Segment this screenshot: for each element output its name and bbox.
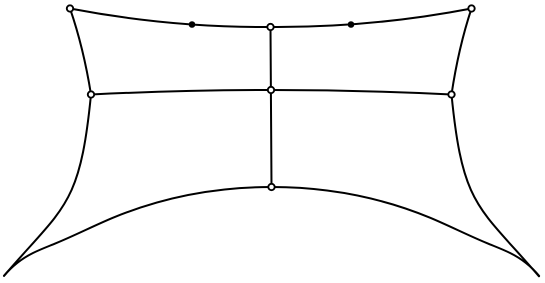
wire: top edge left segment (node A to node B) xyxy=(70,9,271,28)
node C: top-right open control point xyxy=(468,5,474,11)
node D: left-middle open control point xyxy=(88,91,94,97)
node G: bottom-middle open control point xyxy=(268,184,274,190)
wire: right edge upper segment (node C to node F) xyxy=(452,9,472,95)
node B: top-middle open control point xyxy=(267,24,273,30)
wire: left edge upper segment (node A to node D) xyxy=(70,9,91,95)
node A: top-left open control point xyxy=(67,5,73,11)
wire: top edge right segment (node B to node C) xyxy=(271,9,472,28)
wire: middle vertical line (node B through node E to node G) xyxy=(271,27,272,187)
wire: middle horizontal curve (node D through node E to node F) xyxy=(91,90,452,95)
wire: left edge lower segment (node D to bottom-left cusp) xyxy=(4,95,91,276)
node E: center open control point xyxy=(268,87,274,93)
wire: bottom arc (bottom-left cusp through node G to bottom-right cusp) xyxy=(4,187,539,276)
node F: right-middle open control point xyxy=(448,91,454,97)
node P2: filled point on top edge right segment xyxy=(348,21,355,28)
wire: right edge lower segment (node F to bottom-right cusp) xyxy=(452,95,540,277)
node P1: filled point on top edge left segment xyxy=(189,21,196,28)
